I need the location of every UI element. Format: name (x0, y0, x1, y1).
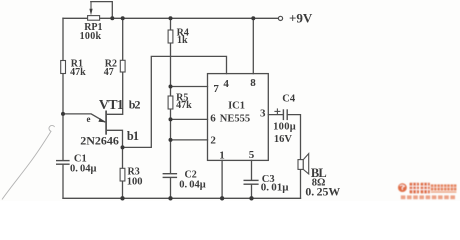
svg-text:47k: 47k (176, 100, 192, 111)
svg-text:2N2646: 2N2646 (80, 134, 119, 148)
svg-text:47: 47 (104, 67, 114, 78)
svg-text:6: 6 (210, 112, 216, 124)
svg-text:8: 8 (250, 77, 256, 89)
svg-text:0. 04μ: 0. 04μ (179, 179, 205, 190)
svg-text:100: 100 (127, 176, 143, 187)
svg-text:BL: BL (311, 166, 327, 180)
svg-text:100k: 100k (80, 31, 102, 42)
svg-text:b2: b2 (129, 97, 141, 111)
svg-text:5: 5 (249, 149, 255, 161)
svg-text:1: 1 (219, 149, 225, 161)
svg-text:b1: b1 (127, 129, 139, 143)
svg-text:0. 25W: 0. 25W (305, 184, 340, 198)
svg-text:VT1: VT1 (99, 98, 124, 113)
svg-text:e: e (87, 114, 91, 124)
svg-text:16V: 16V (274, 134, 293, 145)
svg-text:C4: C4 (282, 94, 296, 105)
svg-text:+9V: +9V (289, 10, 313, 25)
svg-text:4: 4 (223, 78, 229, 90)
svg-text:NE555: NE555 (220, 113, 250, 124)
svg-text:3: 3 (260, 108, 266, 120)
svg-text:IC1: IC1 (228, 100, 245, 111)
svg-text:2: 2 (210, 134, 216, 146)
svg-text:1k: 1k (177, 35, 188, 46)
svg-text:7: 7 (213, 83, 219, 95)
svg-text:0. 04μ: 0. 04μ (70, 164, 96, 175)
svg-text:100μ: 100μ (273, 122, 296, 133)
svg-text:47k: 47k (70, 67, 86, 78)
svg-text:0. 01μ: 0. 01μ (261, 181, 289, 193)
